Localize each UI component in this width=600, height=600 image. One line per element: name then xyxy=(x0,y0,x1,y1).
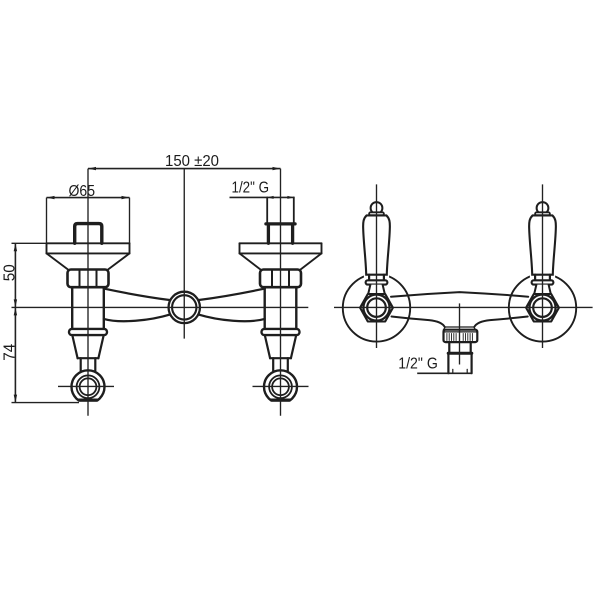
bridge arm bottom-right xyxy=(198,314,265,321)
central hub inner circle xyxy=(172,295,196,319)
right outlet dark foot xyxy=(268,399,292,404)
left outlet dark foot xyxy=(76,399,100,404)
knurled nut xyxy=(444,330,478,342)
bridge bottom contour left xyxy=(392,317,445,328)
right inlet pipe 1/2G xyxy=(267,197,294,223)
right inlet block xyxy=(268,226,292,244)
centerline left column xyxy=(87,169,89,416)
valve outer circle xyxy=(529,295,555,321)
left column body xyxy=(72,287,104,329)
arrow dia65 left xyxy=(47,196,55,199)
body xyxy=(529,215,556,274)
outlet boss shoulder xyxy=(444,327,476,330)
central hub outer circle xyxy=(169,292,200,323)
right escutcheon cone xyxy=(240,253,322,269)
ext line bottom xyxy=(12,402,80,404)
svg-text:1/2" G: 1/2" G xyxy=(398,355,438,372)
bridge arm bottom-left xyxy=(104,314,171,321)
dim line half inch G left view xyxy=(230,196,295,198)
hex nut front xyxy=(360,294,393,322)
ext line top xyxy=(12,242,47,244)
outlet pipe upper xyxy=(449,342,470,353)
centerline middle xyxy=(183,169,185,339)
right column body xyxy=(265,287,297,329)
right escutcheon circle xyxy=(509,274,576,341)
right ring tick xyxy=(253,385,309,387)
right wall flange plate xyxy=(240,243,322,253)
left hex nut xyxy=(68,270,109,288)
left escutcheon circle xyxy=(343,274,410,341)
ext lines dia65 xyxy=(46,198,48,244)
arrow 74 top xyxy=(14,307,17,315)
left outlet ring xyxy=(72,370,105,403)
cover xyxy=(530,274,555,280)
right outlet tube xyxy=(273,358,288,371)
waist xyxy=(369,275,384,281)
horizontal centerline xyxy=(12,306,309,308)
left escutcheon cone xyxy=(47,253,130,269)
hex nut front xyxy=(526,294,559,322)
thread ticks xyxy=(453,369,467,372)
arrow 150 left xyxy=(88,167,96,170)
arrow 150 right xyxy=(273,167,281,170)
left inlet block (square stub) xyxy=(75,224,102,244)
bridge top contour xyxy=(391,292,528,297)
ball collar xyxy=(535,212,550,215)
dim line 150 xyxy=(88,168,281,170)
valve inner circle xyxy=(367,298,386,317)
left outlet tube xyxy=(81,358,96,371)
arrow halfG left xyxy=(267,196,274,199)
left collar ring xyxy=(69,329,107,335)
valve inner circle xyxy=(533,298,552,317)
vertical centerline right handle xyxy=(542,184,544,348)
handle right xyxy=(526,202,559,321)
svg-text:Ø65: Ø65 xyxy=(69,183,96,200)
arrow 50 top xyxy=(14,243,17,251)
svg-text:74: 74 xyxy=(1,343,18,361)
svg-text:150 ±20: 150 ±20 xyxy=(165,153,219,170)
knurl texture xyxy=(447,333,473,341)
left ring tick xyxy=(58,385,114,387)
right hex nut xyxy=(260,270,301,288)
skirt xyxy=(532,280,554,284)
right collar ring xyxy=(262,329,300,335)
body xyxy=(363,215,390,274)
outlet pipe step xyxy=(448,352,472,355)
left lower cone xyxy=(72,335,103,358)
arrow dia65 right xyxy=(122,196,130,199)
bridge arm top-right xyxy=(199,289,265,300)
right lower cone xyxy=(265,335,296,358)
horizontal centerline xyxy=(334,306,593,308)
arrowheads xyxy=(14,167,294,403)
valve outer circle xyxy=(363,295,389,321)
arrow 50 bottom xyxy=(14,299,17,307)
bridge bottom contour right xyxy=(474,317,528,328)
bridge arm top-left xyxy=(104,289,170,300)
svg-text:50: 50 xyxy=(1,264,18,281)
outlet centerline xyxy=(459,303,461,364)
ball xyxy=(537,202,549,214)
centerline right column xyxy=(280,169,282,416)
arrow halfG right xyxy=(287,196,294,199)
ball xyxy=(371,202,383,214)
right inlet pipe shoulder xyxy=(266,222,295,225)
waist xyxy=(535,275,550,281)
leader line half G xyxy=(417,372,471,374)
vertical dim line 50-74 xyxy=(14,243,16,402)
dimension texts xyxy=(1,153,269,361)
arrow 74 bottom xyxy=(14,395,17,403)
ball collar xyxy=(369,212,384,215)
dim line dia65 xyxy=(47,197,130,199)
svg-text:1/2" G: 1/2" G xyxy=(232,180,270,197)
left wall flange plate xyxy=(47,243,130,253)
neck xyxy=(534,285,551,295)
outlet pipe lower xyxy=(448,354,471,374)
right outlet ring xyxy=(264,370,297,403)
cover xyxy=(364,274,389,280)
vertical centerline left handle xyxy=(376,184,378,348)
handle left xyxy=(360,202,393,321)
neck xyxy=(368,285,385,295)
skirt xyxy=(366,280,388,284)
